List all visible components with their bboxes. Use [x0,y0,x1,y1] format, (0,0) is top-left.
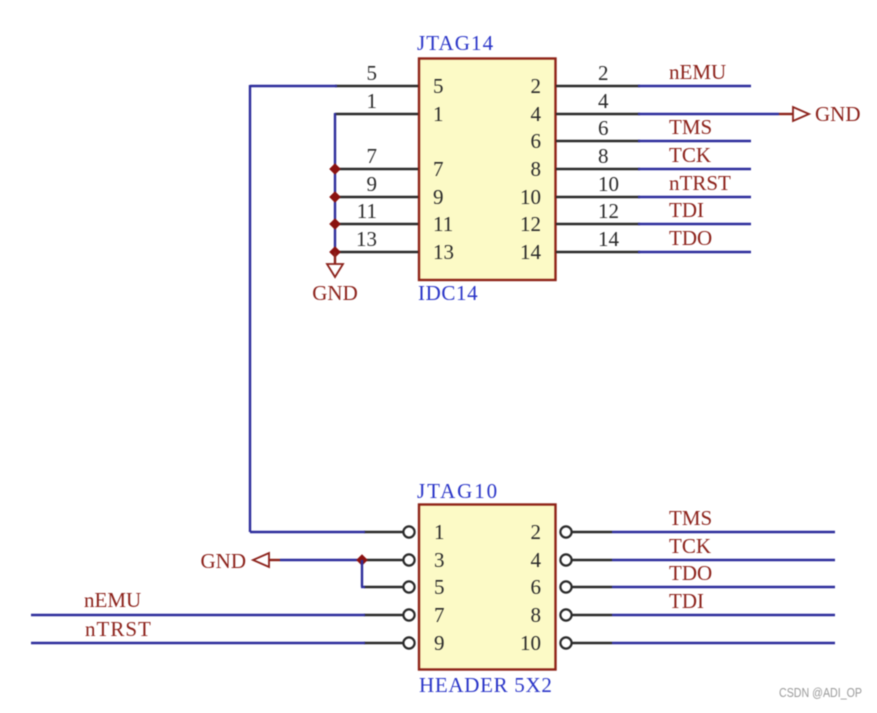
JTAG14 pin 4 (right, stub + designators) [531,89,641,126]
svg-text:GND: GND [312,281,358,305]
wire: JTAG10 right net row 3 [612,586,835,588]
net label nTRST [669,171,731,195]
svg-text:7: 7 [434,603,445,627]
svg-text:13: 13 [356,227,377,251]
svg-text:nEMU: nEMU [84,588,141,612]
net label TCK [669,534,711,558]
svg-text:9: 9 [434,631,445,655]
svg-text:2: 2 [531,74,542,98]
wire: GND to junction at JTAG10 pin3 [280,559,362,561]
JTAG10 pin 3 (left, stub + bubble + designator) [364,548,445,572]
svg-text:TDO: TDO [669,561,712,585]
net label TDO [669,561,712,585]
svg-text:10: 10 [598,172,619,196]
JTAG10 pin 8 (right, stub + bubble + designator) [531,603,613,627]
JTAG14 pin 14 (right, stub + designators) [520,227,640,264]
svg-text:IDC14: IDC14 [418,281,478,305]
wire: vertical from junction down to pin5 row [361,560,363,587]
junction at JTAG14 pin row 6 [329,218,341,230]
net label TCK [669,143,711,167]
svg-text:10: 10 [520,631,541,655]
svg-text:nTRST: nTRST [85,617,152,641]
svg-text:8: 8 [531,603,542,627]
svg-text:TDI: TDI [669,589,704,613]
svg-text:nTRST: nTRST [669,171,731,195]
JTAG14 pin 9 (left, stub + designators) [335,172,444,209]
wire: JTAG14 net nTRST [638,196,751,198]
svg-text:JTAG14: JTAG14 [417,31,494,55]
net label TDI [669,198,704,222]
svg-text:11: 11 [433,212,453,236]
net label nEMU [669,60,726,84]
svg-text:5: 5 [367,61,378,85]
JTAG10 pin 6 (right, stub + bubble + designator) [531,575,613,599]
wire: JTAG14 net TCK [638,168,751,170]
JTAG10 pin 9 (left, stub + bubble + designator) [364,631,445,655]
svg-text:HEADER 5X2: HEADER 5X2 [419,673,553,697]
svg-text:GND: GND [815,102,861,126]
wire: JTAG10 right net row 4 [612,614,835,616]
power port GND (left of JTAG10, arrow left) [201,549,281,573]
junction at JTAG14 pin row 7 [329,246,341,258]
svg-text:1: 1 [433,102,444,126]
svg-text:TDI: TDI [669,198,704,222]
JTAG10 pin 4 (right, stub + bubble + designator) [531,548,613,572]
svg-text:6: 6 [598,116,609,140]
svg-text:12: 12 [520,212,541,236]
net label TDI [669,589,704,613]
connector JTAG10 body [419,505,556,670]
svg-text:2: 2 [598,61,609,85]
svg-text:2: 2 [531,520,542,544]
wire: net nEMU into JTAG10 pin7 [31,614,365,616]
JTAG14 pin 10 (right, stub + designators) [520,172,640,209]
designator JTAG10 [417,479,499,503]
JTAG14 pin 12 (right, stub + designators) [520,199,640,236]
net label nTRST [85,617,152,641]
svg-text:6: 6 [531,575,542,599]
wire: JTAG14 pin5 to long vertical bus [250,85,337,87]
wire: short horizontal to JTAG10 pin5 [361,586,365,588]
svg-text:1: 1 [367,89,378,113]
power port GND (below JTAG14, arrow down) [312,252,358,305]
JTAG14 pin 7 (left, stub + designators) [335,144,444,181]
svg-text:TDO: TDO [669,226,712,250]
wire: JTAG10 right net row 5 [612,642,835,644]
junction at JTAG14 pin row 4 [329,163,341,175]
wire: long vertical from JTAG14 pin5 down to JTAG10 pin1 [249,85,251,532]
designator JTAG14 [417,31,494,55]
wire: JTAG14 net TDI [638,223,751,225]
wire: JTAG10 right net row 1 [612,531,835,533]
svg-text:TCK: TCK [669,534,711,558]
JTAG10 pin 1 (left, stub + bubble + designator) [364,520,445,544]
wire: vertical GND bus from JTAG14 pin1 down to pin13 [334,113,336,252]
svg-text:TMS: TMS [669,506,712,530]
JTAG14 pin 1 (left, stub + designators) [335,89,444,126]
wire: horizontal into JTAG10 pin1 from vertical bus [250,531,365,533]
JTAG10 pin 5 (left, stub + bubble + designator) [364,575,445,599]
svg-text:9: 9 [433,185,444,209]
net label TDO [669,226,712,250]
svg-text:13: 13 [433,240,454,264]
comment HEADER 5X2 [419,673,553,697]
wire: JTAG10 right net row 2 [612,559,835,561]
svg-text:8: 8 [531,157,542,181]
svg-text:TCK: TCK [669,143,711,167]
JTAG14 pin 2 (right, stub + designators) [531,61,641,98]
svg-text:14: 14 [520,240,542,264]
svg-text:4: 4 [531,548,542,572]
svg-text:7: 7 [433,157,444,181]
power port GND (right, arrow right) [779,102,861,126]
JTAG14 pin 6 (right, stub + designators) [531,116,641,153]
net label nEMU [84,588,141,612]
wire: JTAG14 net nEMU [638,85,751,87]
net label TMS [669,115,712,139]
svg-text:6: 6 [531,129,542,153]
wire: JTAG14 net TMS [638,140,751,142]
wire: JTAG14 pin4 net to GND power port [638,113,779,115]
JTAG14 pin 11 (left, stub + designators) [335,199,453,236]
svg-text:14: 14 [598,227,620,251]
JTAG14 pin 8 (right, stub + designators) [531,144,641,181]
svg-text:TMS: TMS [669,115,712,139]
svg-text:3: 3 [434,548,445,572]
svg-text:10: 10 [520,185,541,209]
svg-text:5: 5 [433,74,444,98]
svg-text:12: 12 [598,199,619,223]
svg-text:GND: GND [201,549,247,573]
svg-text:nEMU: nEMU [669,60,726,84]
JTAG10 pin 7 (left, stub + bubble + designator) [364,603,445,627]
svg-text:JTAG10: JTAG10 [417,479,499,503]
svg-text:11: 11 [357,199,377,223]
junction at JTAG10 pin3 [356,554,368,566]
svg-text:4: 4 [598,89,609,113]
wire: JTAG14 net TDO [638,251,751,253]
svg-text:7: 7 [367,144,378,168]
connector JTAG14 body [419,59,556,281]
wire: net nTRST into JTAG10 pin9 [31,642,365,644]
svg-text:8: 8 [598,144,609,168]
JTAG10 pin 2 (right, stub + bubble + designator) [531,520,613,544]
svg-text:4: 4 [531,102,542,126]
svg-text:5: 5 [434,575,445,599]
comment IDC14 [418,281,478,305]
svg-text:1: 1 [434,520,445,544]
junction at JTAG14 pin row 5 [329,191,341,203]
svg-text:CSDN @ADI_OP: CSDN @ADI_OP [779,685,862,700]
JTAG14 pin 13 (left, stub + designators) [335,227,454,264]
net label TMS [669,506,712,530]
JTAG10 pin 10 (right, stub + bubble + designator) [520,631,612,655]
svg-text:9: 9 [367,172,378,196]
JTAG14 pin 5 (left, stub + designators) [335,61,444,98]
watermark text [779,685,862,700]
